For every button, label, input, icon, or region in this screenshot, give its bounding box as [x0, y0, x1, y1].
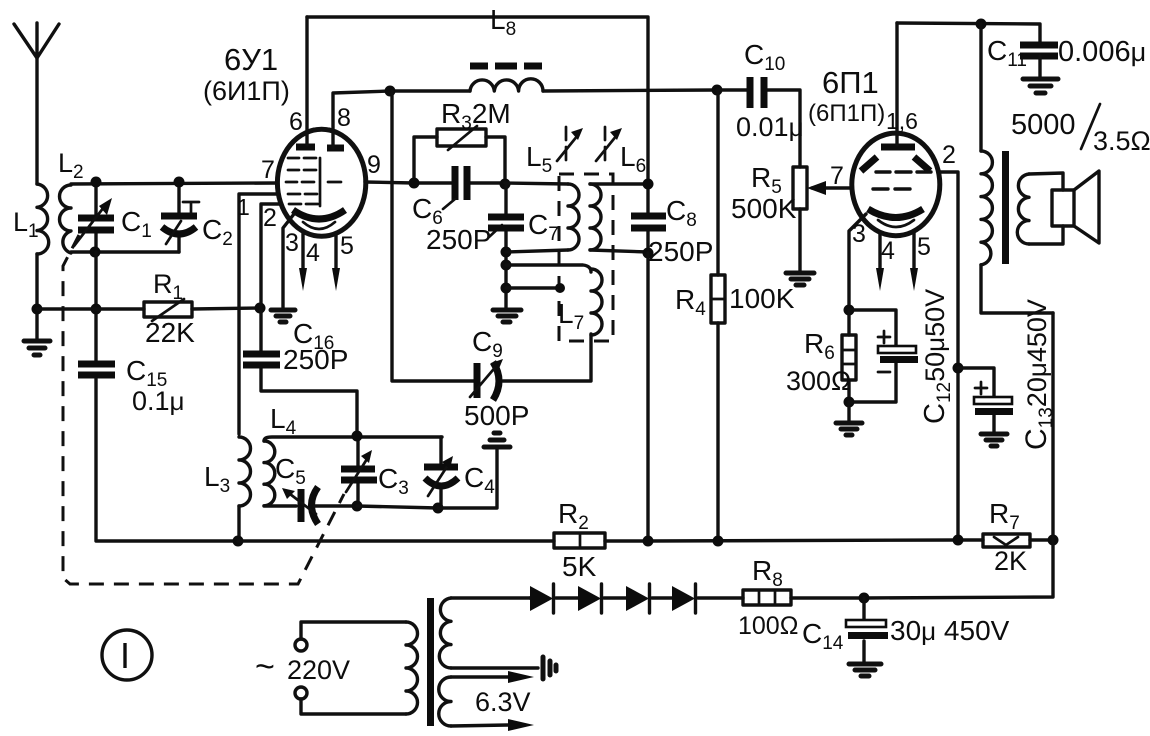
- label R5: [751, 162, 782, 198]
- svg-text:220V: 220V: [287, 655, 350, 685]
- label C14 value 30u450V: [890, 615, 1010, 646]
- wire L7 top lead: [506, 265, 591, 272]
- label pin 7: [261, 156, 275, 184]
- svg-text:3.5Ω: 3.5Ω: [1093, 126, 1150, 156]
- label pin 3 V2: [852, 220, 866, 248]
- tube V2 6P1P envelope: [852, 133, 940, 236]
- label mains tilde: [255, 648, 275, 686]
- node C1 bottom junction: [90, 247, 101, 258]
- node C10 left junction: [712, 85, 723, 96]
- label C6: [412, 193, 443, 229]
- label C4: [464, 462, 495, 498]
- speaker leads: [1029, 173, 1063, 244]
- label R4 value 100K: [729, 283, 795, 314]
- svg-text:0.006μ: 0.006μ: [1058, 36, 1146, 68]
- pins 1,6 lead to HT line: [895, 23, 898, 145]
- label pin 4: [306, 239, 320, 267]
- pin 2 lead screen: [940, 172, 958, 540]
- label C16: [293, 318, 334, 354]
- label C10: [744, 39, 785, 75]
- capacitor C13 electrolytic: [958, 368, 1013, 433]
- top line pin6 to detector node: [307, 17, 648, 184]
- node rail junction at x96: [91, 304, 102, 315]
- wire AGC bottom rail: [238, 540, 1053, 541]
- node cathode junction bottom: [844, 397, 855, 408]
- resistor R4: [711, 90, 725, 541]
- C6 leader lines: [443, 199, 502, 237]
- svg-text:6: 6: [289, 108, 303, 136]
- node R3 left junction: [409, 178, 420, 189]
- svg-text:R32M: R32M: [441, 98, 511, 134]
- diode D2: [578, 584, 602, 613]
- svg-text:6У1: 6У1: [224, 42, 278, 77]
- label pin 5: [340, 232, 354, 260]
- wire antenna to L1: [35, 56, 38, 184]
- node rectifier output junction: [859, 593, 870, 604]
- label tube V2 type (6P1P): [808, 100, 885, 127]
- figure number circle 1: [102, 630, 152, 680]
- wire HT riser: [864, 313, 1053, 598]
- svg-text:0.1μ: 0.1μ: [132, 386, 185, 416]
- label C8 value 250P: [648, 236, 713, 267]
- capacitor C10: [717, 77, 800, 167]
- wire L5 top lead: [505, 183, 568, 184]
- wire D2 to D3: [604, 596, 626, 599]
- node screen line C13 tap: [953, 363, 964, 374]
- label C14: [802, 618, 844, 654]
- svg-text:5K: 5K: [562, 551, 597, 582]
- wire C4 node to trimmer ground: [438, 447, 497, 508]
- coil L1: [37, 184, 49, 254]
- label R1: [153, 269, 183, 304]
- L8 core dashes: [470, 63, 542, 70]
- node C4 bottom junction: [433, 503, 444, 514]
- label L1: [13, 207, 39, 242]
- tube V2 grid dashes: [873, 172, 931, 189]
- svg-text:250P: 250P: [283, 344, 348, 375]
- label R3 value 2M: [441, 98, 511, 134]
- ground small at C4: [484, 433, 510, 447]
- resistor R3: [414, 126, 505, 184]
- label L5: [526, 141, 552, 177]
- node pin2 rail junction: [255, 303, 266, 314]
- wire L1 bottom to ground rail: [35, 254, 38, 341]
- IF transformer shield dashed box: [559, 174, 613, 341]
- node C8 bottom junction: [643, 248, 654, 259]
- wire D1 to D2: [556, 596, 578, 599]
- resistor R1: [144, 299, 192, 321]
- wire pin 9 to R3 C6 node: [365, 182, 414, 183]
- svg-text:2K: 2K: [994, 546, 1027, 576]
- svg-text:6П1: 6П1: [822, 65, 879, 100]
- tube V2 beam plates: [861, 157, 930, 171]
- diode D1: [530, 584, 554, 613]
- label tube V1 type (6I1P): [203, 76, 290, 106]
- wire grid line L2 top to tube1 pin7: [71, 183, 278, 184]
- pin 5 heater lead arrow: [332, 235, 340, 291]
- label pin 5 V2: [917, 233, 931, 261]
- label C11: [987, 35, 1027, 71]
- capacitor C8: [631, 184, 666, 253]
- label pin 2 V2: [942, 141, 956, 169]
- label L2: [58, 148, 84, 183]
- label C10 value 0.01u: [736, 112, 804, 142]
- pin 3 cathode lead to ground: [283, 214, 294, 309]
- label pin 7 V2: [830, 162, 844, 190]
- node HT transformer junction: [976, 19, 987, 30]
- output transformer T2 primary: [981, 24, 1053, 313]
- resistor R8: [743, 590, 791, 605]
- wire L6 top lead: [590, 182, 648, 185]
- wire heater bottom arrow: [451, 719, 534, 731]
- svg-text:250P: 250P: [648, 236, 713, 267]
- svg-text:2: 2: [942, 141, 956, 169]
- label pin 4 V2: [881, 237, 895, 265]
- tube V2 cathode arc: [868, 209, 923, 218]
- power transformer T1 primary: [301, 622, 418, 714]
- svg-text:22K: 22K: [145, 317, 195, 348]
- label C2: [202, 214, 233, 250]
- capacitor C6: [414, 166, 505, 200]
- node rail junction screen branch: [953, 535, 964, 546]
- svg-text:(6И1П): (6И1П): [203, 76, 290, 106]
- wire rail right segment to pin2 node: [192, 308, 260, 309]
- svg-text:1,6: 1,6: [886, 108, 918, 134]
- svg-text:100Ω: 100Ω: [738, 612, 798, 640]
- wire L3 bottom to rail: [237, 506, 240, 541]
- pin 6 lead to top line: [305, 17, 308, 145]
- tube V1 grid dashes: [286, 158, 341, 206]
- label R8 value 100ohm: [738, 612, 798, 640]
- label pin 6: [289, 108, 303, 136]
- node plate junction: [385, 86, 396, 97]
- ground at R5: [786, 273, 814, 285]
- label pin 2: [263, 204, 277, 232]
- svg-text:7: 7: [261, 156, 275, 184]
- node cathode junction top: [844, 305, 855, 316]
- wire L2 bottom node: [71, 250, 179, 253]
- coil L2: [60, 185, 72, 253]
- svg-text:4: 4: [881, 237, 895, 265]
- label C11 value 0.006u: [1058, 36, 1146, 68]
- label pin 3: [285, 229, 299, 257]
- capacitor C2 trimmer: [161, 182, 199, 252]
- svg-text:0.01μ: 0.01μ: [736, 112, 804, 142]
- label C9 value 500P: [464, 400, 529, 431]
- node C8 top junction: [643, 179, 654, 190]
- capacitor C14 electrolytic: [846, 598, 888, 663]
- ground at C13: [981, 434, 1007, 446]
- wire R8 to C14 node: [791, 596, 864, 599]
- label L4: [270, 403, 297, 439]
- coil L7: [591, 269, 602, 335]
- pin 4 heater lead arrow: [299, 232, 307, 291]
- label tube V2 type 6P1: [822, 65, 879, 100]
- label C8: [666, 195, 697, 231]
- antenna W1: [14, 23, 59, 58]
- tube V2 anode bar: [881, 144, 915, 151]
- capacitor C11: [1020, 45, 1058, 78]
- coil L5: [568, 184, 579, 250]
- ground at L1: [24, 341, 50, 355]
- svg-text:500P: 500P: [464, 400, 529, 431]
- label R2 value 5K: [562, 551, 597, 582]
- node L3 rail junction: [233, 536, 244, 547]
- label C15: [126, 355, 167, 391]
- label R6 value 300ohm: [786, 366, 851, 396]
- capacitor C3 variable: [341, 437, 377, 506]
- node tank bottom junction: [352, 501, 363, 512]
- svg-text:30μ 450V: 30μ 450V: [890, 615, 1010, 646]
- wire C15 to bottom rail: [96, 379, 238, 541]
- pin 3 cathode lead: [849, 214, 866, 310]
- svg-text:5: 5: [917, 233, 931, 261]
- wire C8 bottom to rail: [646, 253, 649, 541]
- ground at tube V1 cathode: [271, 310, 295, 322]
- diode D4: [672, 584, 696, 613]
- node rail junction R4 branch: [713, 536, 724, 547]
- power transformer T1 HV secondary: [439, 598, 451, 668]
- wire heater top arrow: [451, 671, 534, 683]
- pin 2 lead to rail: [261, 204, 281, 308]
- wire HV secondary bottom to ground: [451, 666, 538, 669]
- pin 5 heater arrow V2: [910, 233, 918, 291]
- capacitor C5 variable: [282, 487, 357, 524]
- label C7: [528, 209, 559, 245]
- gang dashed link from C1: [63, 235, 344, 584]
- label C12 value vertical: [919, 289, 955, 424]
- label R4: [675, 284, 706, 320]
- label L8: [490, 4, 516, 40]
- tube V1 anode bars: [296, 147, 344, 148]
- label R7: [989, 498, 1020, 534]
- resistor R7: [983, 534, 1030, 547]
- label L3: [204, 461, 230, 497]
- label R8: [752, 555, 783, 591]
- wire tank bottom rail: [357, 506, 438, 508]
- wire plate line: [390, 90, 717, 91]
- ground at R6: [836, 402, 862, 435]
- power transformer T1 primary terminals: [295, 639, 307, 699]
- svg-text:5: 5: [340, 232, 354, 260]
- label C13 value vertical: [1020, 299, 1057, 450]
- svg-text:300Ω: 300Ω: [786, 366, 851, 396]
- potentiometer R5: [793, 167, 807, 272]
- label pin 9: [367, 151, 381, 179]
- wire L7 bottom to C9: [503, 334, 591, 381]
- label pin 8: [337, 104, 351, 132]
- capacitor C1: [74, 182, 114, 252]
- capacitor C4 trimmer: [424, 437, 458, 508]
- L5 tuning core arrow: [557, 127, 583, 161]
- node C7 bottom junctions: [501, 247, 512, 294]
- coil L6: [590, 184, 601, 250]
- label heater 6.3V: [475, 687, 531, 717]
- output transformer T2 secondary: [1017, 174, 1029, 244]
- power transformer T1 heater secondary: [439, 677, 451, 726]
- node L1-bottom junction: [32, 304, 43, 315]
- svg-text:6.3V: 6.3V: [475, 687, 531, 717]
- wire L5 bottom lead: [506, 250, 568, 252]
- ground at C11: [1023, 79, 1058, 93]
- tube V2 heater arc: [878, 220, 914, 227]
- label C15 value 0.1u: [132, 386, 185, 416]
- svg-text:(6П1П): (6П1П): [808, 100, 885, 127]
- svg-text:100K: 100K: [729, 283, 795, 314]
- label tube V1 type 6U1: [224, 42, 278, 77]
- label R7 value 2K: [994, 546, 1027, 576]
- pin 7 grid lead arrow to R5 wiper: [807, 181, 852, 195]
- label C1: [121, 206, 152, 242]
- label R5 value 500K: [731, 193, 797, 224]
- node L2 top junction dots: [91, 177, 185, 188]
- ground at C7 L7 node: [493, 310, 521, 322]
- ground at C14: [849, 664, 881, 676]
- svg-text:1: 1: [237, 194, 250, 220]
- label R1 value 22K: [145, 317, 195, 348]
- coil L8: [470, 79, 543, 91]
- label L7: [558, 298, 584, 334]
- speaker: [1052, 171, 1099, 243]
- label C5: [275, 453, 306, 489]
- node rail junction C8 branch: [643, 536, 654, 547]
- label pin 1: [237, 194, 250, 220]
- node HT junction at R7: [1048, 535, 1059, 546]
- svg-text:5000: 5000: [1011, 109, 1076, 141]
- svg-text:C1250μ50V: C1250μ50V: [919, 289, 955, 424]
- diode D3: [626, 584, 650, 613]
- label C3: [378, 463, 409, 499]
- svg-text:4: 4: [306, 239, 320, 267]
- svg-text:~: ~: [255, 648, 275, 686]
- label T2 impedance 5000/3.5ohm: [1011, 104, 1150, 156]
- tube V1 heater arc: [303, 222, 335, 229]
- coil L3: [239, 437, 251, 506]
- L6 tuning core arrow: [596, 127, 622, 161]
- wire D3 to D4: [652, 596, 672, 599]
- node R3 right junction: [500, 179, 511, 190]
- wire L6 bottom lead: [590, 250, 648, 252]
- node tank top junction: [352, 431, 363, 442]
- label C6 value 250P: [426, 224, 491, 255]
- wire C1 node down to AGC rail: [94, 252, 97, 361]
- svg-text:250P: 250P: [426, 224, 491, 255]
- capacitor C15: [78, 364, 115, 375]
- pin 1 lead to L3: [239, 194, 279, 434]
- capacitor C16: [243, 308, 357, 436]
- svg-text:3: 3: [852, 220, 866, 248]
- label C16 value 250P: [283, 344, 348, 375]
- svg-text:500K: 500K: [731, 193, 797, 224]
- capacitor C7: [488, 184, 524, 309]
- label C9: [472, 326, 503, 362]
- pin 8 lead to plate line: [333, 91, 390, 148]
- output transformer T2 core: [1002, 151, 1009, 264]
- wire rail left segment: [37, 307, 144, 310]
- tube V1 6I1P envelope: [277, 129, 365, 236]
- svg-text:I: I: [120, 635, 130, 676]
- tube V1 cathode arc: [293, 210, 345, 219]
- svg-text:7: 7: [830, 162, 844, 190]
- capacitor C12 electrolytic: [849, 310, 918, 402]
- wire HV secondary top to diodes: [451, 596, 530, 599]
- pin 4 heater arrow V2: [876, 232, 884, 291]
- label mains 220V: [287, 655, 350, 685]
- wire shield ground tap: [506, 283, 565, 293]
- resistor R2: [554, 533, 605, 548]
- svg-text:2: 2: [263, 204, 277, 232]
- resistor R6: [842, 310, 856, 402]
- label R2: [558, 498, 589, 534]
- ground rotated at HV secondary: [543, 657, 556, 679]
- wire HT top right line: [897, 23, 1040, 42]
- label L6: [620, 141, 646, 177]
- wire D4 to R8: [698, 596, 743, 599]
- coil L4: [264, 441, 275, 506]
- wire L4 top lead tank rail: [264, 437, 442, 441]
- svg-text:8: 8: [337, 104, 351, 132]
- capacitor C9 variable: [392, 91, 503, 400]
- svg-text:9: 9: [367, 151, 381, 179]
- power transformer T1 core: [427, 598, 434, 726]
- label R6: [804, 328, 835, 364]
- label pins 1,6: [886, 108, 918, 134]
- svg-text:3: 3: [285, 229, 299, 257]
- wire L4 bottom lead: [264, 504, 296, 507]
